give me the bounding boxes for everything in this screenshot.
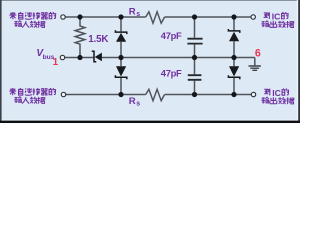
resistor Rs (top): [146, 12, 165, 23]
junction bottom-B: [118, 92, 123, 97]
svg-text:R: R: [129, 96, 136, 107]
terminal top-left: [61, 15, 65, 19]
capacitor C1 47pF (top): [187, 17, 202, 58]
junction bottom-C: [192, 92, 197, 97]
wire clamp rail 1: [120, 17, 122, 95]
wire bottom data line left: [66, 94, 146, 96]
svg-text:s: s: [136, 11, 140, 18]
svg-text:6: 6: [255, 47, 261, 59]
wire top data line right: [165, 16, 251, 18]
label Rs (bottom): [129, 96, 140, 107]
terminal Vbus: [60, 55, 64, 59]
label 1.5K: [88, 34, 108, 45]
zener diode D1 (rail1 upper): [115, 30, 126, 42]
svg-text:R: R: [129, 7, 136, 18]
terminal bottom-left: [61, 92, 65, 96]
label 47pF (top): [161, 30, 182, 41]
junction mid-C: [192, 55, 197, 60]
label input data (bottom-left): [9, 88, 55, 103]
ground: [249, 66, 261, 70]
terminal bottom-right: [251, 92, 255, 96]
wire top data line left: [65, 16, 145, 18]
zener diode D4 (rail2 lower): [228, 66, 239, 79]
svg-text:1: 1: [53, 57, 59, 68]
wire middle ground net: [102, 57, 255, 59]
zener diode D2 (rail1 lower): [115, 66, 126, 79]
junction top-B: [118, 14, 123, 19]
terminal top-right: [251, 15, 255, 19]
label output data (top-right): [261, 11, 294, 27]
resistor Rs (bottom): [146, 89, 165, 100]
svg-text:47pF: 47pF: [161, 68, 182, 79]
wire ground stub: [254, 58, 256, 66]
zener diode D3 (rail2 upper): [228, 29, 239, 41]
wire bottom data line right: [165, 94, 252, 96]
wire clamp rail 2: [233, 17, 235, 95]
svg-text:47pF: 47pF: [161, 30, 182, 41]
svg-text:IC: IC: [272, 11, 281, 21]
junction top-D: [231, 14, 236, 19]
junction bottom-D: [231, 92, 236, 97]
label net 6: [255, 47, 261, 59]
svg-text:s: s: [136, 101, 140, 108]
svg-text:1.5K: 1.5K: [88, 34, 108, 45]
label 47pF (bottom): [161, 68, 182, 79]
label input data (top-left): [9, 12, 55, 27]
resistor 1.5K vertical: [75, 17, 85, 58]
wire Vbus segment to diode: [65, 57, 94, 59]
junction top-C: [192, 14, 197, 19]
label output data (bottom-right): [261, 88, 294, 104]
label Vbus1: [36, 48, 58, 68]
capacitor C2 47pF (bottom): [188, 58, 202, 95]
junction top-A: [77, 14, 82, 19]
junction mid-D: [231, 55, 236, 60]
zener diode D5 (Vbus horizontal): [92, 51, 102, 61]
label Rs (top): [129, 7, 140, 18]
svg-text:IC: IC: [272, 88, 281, 98]
junction mid-B: [118, 55, 123, 60]
junction Vbus-A: [77, 55, 82, 60]
